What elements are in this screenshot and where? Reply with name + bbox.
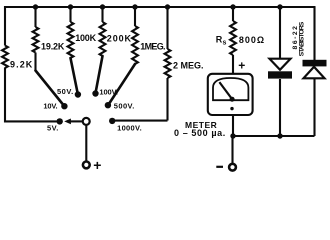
svg-text:STABISTORS: STABISTORS bbox=[299, 21, 306, 56]
svg-text:500V.: 500V. bbox=[114, 102, 135, 111]
svg-text:s: s bbox=[223, 40, 227, 47]
svg-text:0 – 500 µa.: 0 – 500 µa. bbox=[174, 128, 226, 138]
svg-text:5V.: 5V. bbox=[47, 124, 59, 133]
svg-text:2 MEG.: 2 MEG. bbox=[173, 60, 204, 70]
svg-text:1000V.: 1000V. bbox=[117, 124, 142, 133]
svg-text:50V.: 50V. bbox=[57, 87, 74, 96]
svg-text:19.2K: 19.2K bbox=[41, 42, 65, 52]
svg-text:100K: 100K bbox=[75, 33, 96, 43]
svg-text:9.2K: 9.2K bbox=[10, 59, 33, 69]
svg-text:10V.: 10V. bbox=[43, 102, 57, 111]
svg-text:+: + bbox=[238, 58, 245, 72]
svg-text:100V.: 100V. bbox=[99, 87, 117, 96]
svg-text:+: + bbox=[93, 157, 101, 173]
svg-text:1MEG.: 1MEG. bbox=[140, 41, 165, 51]
svg-text:200K: 200K bbox=[107, 34, 132, 44]
svg-text:800Ω: 800Ω bbox=[239, 35, 265, 45]
